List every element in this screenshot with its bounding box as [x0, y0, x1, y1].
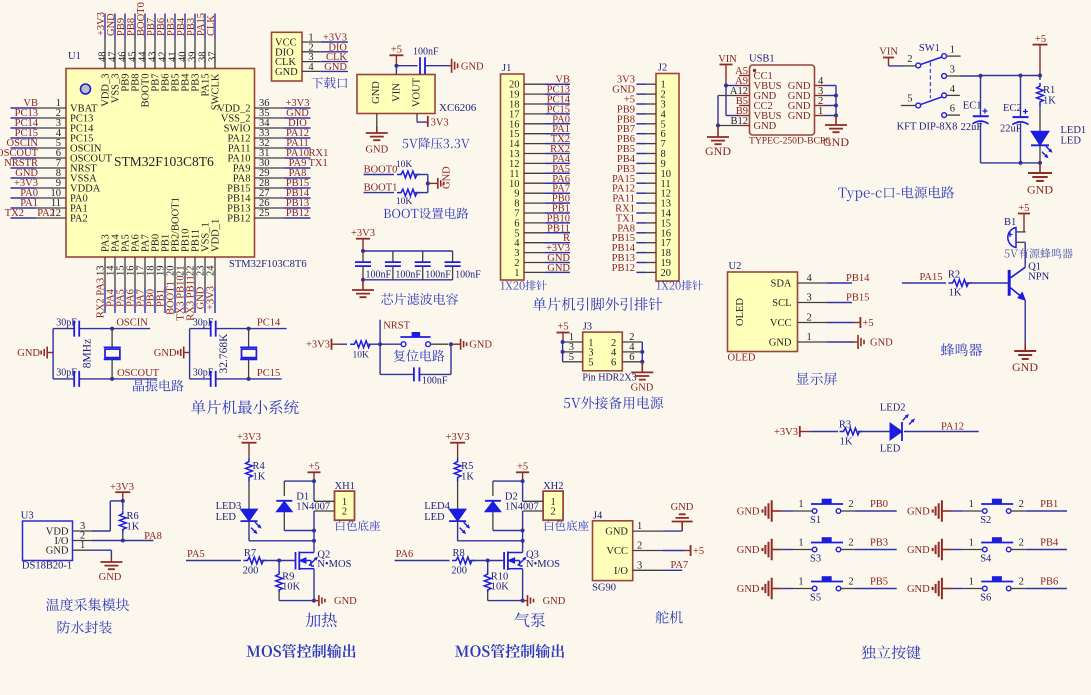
U1 right net wires and labels: [285, 98, 329, 219]
switch S4: [952, 537, 1024, 564]
svg-text:2: 2: [1019, 499, 1024, 510]
junction gate: [486, 559, 490, 563]
wire flyback bottom: [284, 530, 314, 532]
svg-text:30pF: 30pF: [193, 368, 214, 379]
USB1 right pins 4-1: [815, 76, 837, 117]
svg-text:S6: S6: [980, 593, 991, 604]
svg-text:+5: +5: [693, 546, 704, 557]
title servo: [656, 611, 683, 624]
svg-text:U1: U1: [68, 51, 81, 62]
svg-text:+3V3: +3V3: [306, 340, 330, 351]
svg-text:22uF: 22uF: [1000, 124, 1022, 135]
wire VIN node: [395, 66, 397, 75]
title reset circuit: [394, 350, 445, 362]
svg-text:3: 3: [637, 560, 642, 571]
svg-text:VIN: VIN: [718, 54, 737, 65]
ground sideways input cap: [449, 65, 451, 67]
svg-text:2: 2: [637, 541, 642, 552]
svg-text:3: 3: [807, 293, 812, 304]
svg-text:GND: GND: [547, 263, 570, 274]
svg-text:J4: J4: [593, 510, 603, 521]
svg-text:SWCLK: SWCLK: [211, 73, 222, 110]
resistor R6 1K: [122, 501, 124, 510]
svg-text:GND: GND: [365, 145, 388, 156]
svg-text:PA2: PA2: [70, 214, 88, 225]
U1 bottom pins 13-24: [96, 197, 222, 287]
ground usb left: [717, 126, 719, 138]
svg-text:30pF: 30pF: [193, 318, 214, 329]
svg-text:PB15: PB15: [846, 293, 869, 304]
svg-text:GND: GND: [275, 67, 298, 78]
junction VBUS: [724, 84, 728, 88]
capacitors 100nF x4: [355, 251, 461, 280]
svg-text:3V3: 3V3: [431, 118, 449, 129]
svg-text:GND: GND: [907, 584, 930, 595]
svg-text:Pin HDR2X3: Pin HDR2X3: [582, 373, 636, 384]
junctions J3 right: [640, 350, 644, 354]
svg-text:+3V3: +3V3: [774, 427, 798, 438]
svg-text:4: 4: [807, 273, 813, 284]
svg-text:R5: R5: [461, 461, 473, 472]
svg-text:N•MOS: N•MOS: [317, 559, 351, 570]
net label PB1 wire: [1011, 510, 1026, 512]
junctions crystal 8MHz: [110, 327, 114, 331]
svg-text:USB1: USB1: [749, 54, 775, 65]
ground oled: [828, 341, 855, 343]
svg-text:LED: LED: [424, 512, 445, 523]
title xiazaikou: [312, 77, 348, 88]
wire led to drain node: [248, 521, 250, 541]
svg-text:1: 1: [807, 332, 812, 343]
display U2 body: [728, 272, 798, 352]
svg-text:GND: GND: [671, 502, 694, 513]
svg-text:CLK: CLK: [206, 15, 217, 36]
wire flyback top: [493, 480, 523, 482]
svg-text:10K: 10K: [282, 582, 301, 593]
svg-text:+5: +5: [391, 45, 402, 56]
USB1 left pins: [730, 66, 782, 132]
wire source to gnd: [313, 569, 315, 601]
svg-text:PB6: PB6: [1040, 577, 1058, 588]
svg-text:100nF: 100nF: [455, 270, 481, 281]
resistor R7 200: [243, 557, 266, 564]
svg-text:NRST: NRST: [383, 321, 410, 332]
diode D1 1N4007: [276, 500, 292, 502]
svg-text:S3: S3: [810, 554, 821, 565]
svg-text:GND: GND: [737, 545, 760, 556]
connector J4 body: [593, 521, 633, 581]
svg-text:PC15: PC15: [257, 368, 280, 379]
svg-text:1: 1: [80, 540, 85, 551]
junction filter bottom: [361, 278, 365, 282]
resistor R1 1K: [1039, 76, 1041, 81]
svg-text:J1: J1: [502, 63, 511, 74]
ground J3: [641, 362, 643, 373]
svg-text:B1: B1: [1004, 217, 1016, 228]
J3 pins: [563, 332, 643, 369]
net label PB4 wire: [1011, 549, 1026, 551]
svg-text:PB4: PB4: [1040, 538, 1059, 549]
svg-text:GND: GND: [324, 62, 347, 73]
svg-text:VCC: VCC: [770, 318, 792, 329]
svg-text:4: 4: [308, 62, 314, 73]
regulator XC6206 body: [357, 75, 435, 114]
svg-text:TX2: TX2: [5, 208, 24, 219]
net label PC14: [249, 328, 287, 330]
junction usb gnd left: [716, 124, 720, 128]
U1 right pins 36-25: [217, 98, 284, 225]
svg-text:GND: GND: [870, 338, 893, 349]
svg-text:VIN: VIN: [879, 47, 898, 58]
svg-text:S5: S5: [810, 593, 821, 604]
svg-text:R8: R8: [452, 548, 464, 559]
switch S1: [781, 499, 853, 526]
svg-text:TYPEC-250D-BCP6: TYPEC-250D-BCP6: [749, 136, 830, 147]
svg-text:1: 1: [637, 521, 642, 532]
switch S2: [952, 499, 1024, 526]
wire source to gnd: [522, 569, 524, 601]
connector download port body: [272, 32, 303, 81]
svg-text:+3V3: +3V3: [446, 432, 470, 443]
resistor R9 10K: [278, 561, 280, 572]
junctions top bus: [979, 74, 983, 78]
svg-text:PA2: PA2: [37, 208, 55, 219]
svg-text:20: 20: [661, 268, 672, 279]
net label NRST: [379, 320, 381, 345]
net label PB0 wire: [841, 510, 856, 512]
ground reset: [451, 343, 461, 345]
svg-text:VIN: VIN: [391, 83, 402, 102]
svg-text:1K: 1K: [253, 472, 266, 483]
capacitor 30pF top 32.768K: [211, 321, 216, 337]
crystal 32.768K: [248, 329, 250, 348]
junction I/O: [121, 539, 125, 543]
svg-text:100nF: 100nF: [425, 270, 451, 281]
wire flyback bottom: [493, 530, 523, 532]
svg-text:+3V3: +3V3: [351, 228, 375, 239]
svg-text:I/O: I/O: [614, 566, 628, 577]
svg-text:+3V3: +3V3: [237, 432, 261, 443]
wire buzzer to collector: [1024, 242, 1026, 267]
junction drain node: [312, 539, 316, 543]
svg-text:+5: +5: [863, 318, 874, 329]
junction gate: [277, 559, 281, 563]
junction filter top: [361, 249, 365, 253]
svg-text:2: 2: [848, 499, 853, 510]
wire +5 to pin1: [313, 481, 315, 501]
svg-text:J3: J3: [583, 322, 592, 333]
connector USB1 body: [750, 65, 815, 135]
wire J3 left: [562, 342, 564, 362]
comment white socket: [336, 520, 380, 531]
svg-text:100nF: 100nF: [413, 47, 439, 58]
net label PB14: [828, 282, 853, 284]
capacitor 100nF reset: [379, 344, 381, 374]
svg-text:1K: 1K: [840, 437, 853, 448]
wire usb gnd right: [835, 86, 837, 116]
U1 left net wires and labels: [0, 98, 55, 219]
svg-text:PB14: PB14: [846, 273, 870, 284]
junction BOOT: [426, 181, 430, 185]
svg-text:R3: R3: [839, 420, 851, 431]
capacitor 30pF top 8MHz: [74, 321, 79, 337]
J2 net wires and labels: [612, 75, 646, 274]
J4 pins: [605, 521, 662, 577]
svg-text:TX1: TX1: [309, 158, 328, 169]
comment 1X20 header J2: [657, 280, 703, 290]
svg-text:GND: GND: [1027, 183, 1053, 197]
title crystal circuit: [133, 380, 183, 392]
svg-text:LED2: LED2: [880, 403, 906, 414]
svg-text:LED: LED: [1061, 136, 1082, 147]
svg-text:OSCOUT: OSCOUT: [117, 368, 160, 379]
U1 left pins 1-12: [36, 98, 113, 225]
title Type-c power circuit: [838, 186, 954, 201]
ground mos Q3: [523, 600, 528, 602]
title temperature module: [46, 598, 129, 611]
svg-text:37: 37: [208, 52, 219, 63]
ground power circuit: [1039, 163, 1041, 173]
svg-text:6: 6: [629, 352, 634, 363]
svg-text:1: 1: [969, 538, 974, 549]
svg-text:GND: GND: [631, 383, 654, 394]
svg-text:2: 2: [848, 577, 853, 588]
svg-text:2: 2: [550, 507, 555, 518]
svg-text:R6: R6: [127, 511, 139, 522]
capacitor 30pF bottom 8MHz: [74, 371, 79, 387]
svg-text:GND: GND: [737, 584, 760, 595]
svg-text:LED3: LED3: [216, 501, 242, 512]
wire BOOT join: [427, 175, 429, 193]
led LED4: [449, 509, 466, 521]
ground BOOT sideways: [428, 182, 438, 184]
svg-text:30pF: 30pF: [56, 318, 77, 329]
svg-text:200: 200: [243, 566, 259, 577]
svg-text:U3: U3: [21, 511, 34, 522]
svg-text:LED1: LED1: [1061, 125, 1087, 136]
wire drain net: [522, 511, 524, 552]
comment white socket: [545, 520, 589, 531]
capacitor 100nF input: [420, 57, 425, 74]
svg-text:1: 1: [969, 577, 974, 588]
wire flyback top: [284, 480, 314, 482]
svg-text:PA15: PA15: [920, 272, 943, 283]
junction VIN: [394, 64, 398, 68]
wire emitter to gnd: [1024, 300, 1026, 342]
svg-text:1K: 1K: [1043, 96, 1056, 107]
download port pins 1-4: [302, 33, 348, 73]
junction source gnd: [312, 599, 316, 603]
wire +5 to pin1: [522, 481, 524, 501]
svg-text:S2: S2: [980, 515, 991, 526]
IC U1 STM32F103C8T6 body: [66, 69, 255, 258]
svg-text:N•MOS: N•MOS: [526, 559, 560, 570]
connector J2 body: [656, 74, 679, 282]
svg-text:2: 2: [342, 507, 347, 518]
title independent buttons: [861, 645, 920, 659]
svg-text:8MHz: 8MHz: [82, 339, 94, 368]
svg-text:5: 5: [907, 94, 912, 105]
ground sensor: [92, 549, 111, 551]
svg-text:VOUT: VOUT: [411, 77, 422, 107]
title chip filter capacitors: [381, 293, 458, 305]
net label PB5 wire: [841, 588, 856, 590]
net label PB3 wire: [841, 549, 856, 551]
wire filter bottom bus: [363, 279, 453, 281]
svg-text:1: 1: [818, 106, 823, 117]
svg-text:30pF: 30pF: [56, 368, 77, 379]
svg-text:GND: GND: [17, 348, 40, 359]
switch reset button: [380, 343, 401, 345]
svg-text:VDD_1: VDD_1: [211, 219, 222, 252]
wire led to drain node: [457, 521, 459, 541]
svg-text:200: 200: [451, 566, 467, 577]
led LED2: [890, 423, 902, 440]
svg-text:5: 5: [569, 352, 574, 363]
wire sw1 pin3 to rail: [960, 75, 981, 77]
XH2 pins: [523, 500, 544, 502]
resistor R4 1K: [248, 453, 250, 459]
svg-text:STM32F103C8T6: STM32F103C8T6: [229, 259, 307, 270]
svg-text:GND: GND: [823, 135, 849, 149]
ground mos Q2: [314, 600, 319, 602]
title display: [796, 373, 837, 386]
net label OSCOUT: [112, 378, 157, 380]
svg-text:1: 1: [798, 499, 803, 510]
junction drain node: [521, 539, 525, 543]
svg-text:OLED: OLED: [735, 298, 746, 326]
svg-text:PA8: PA8: [144, 531, 162, 542]
title 5V external backup power: [564, 396, 663, 409]
svg-text:GND: GND: [754, 121, 777, 132]
svg-text:GND: GND: [907, 507, 930, 518]
svg-text:PA6: PA6: [396, 549, 414, 560]
U2 pins: [769, 273, 828, 349]
resistor R8 200: [452, 557, 475, 564]
title 5V step down 3.3V: [403, 137, 470, 149]
svg-text:PB3: PB3: [870, 538, 888, 549]
svg-text:GND: GND: [1012, 360, 1038, 374]
svg-text:PB0: PB0: [870, 499, 888, 510]
resistor 10K BOOT0: [364, 174, 394, 176]
title MOS control output 2: [455, 644, 564, 658]
svg-text:10K: 10K: [491, 582, 510, 593]
wire VBUS net: [726, 85, 739, 87]
svg-text:10K: 10K: [396, 160, 413, 170]
svg-text:XC6206: XC6206: [439, 102, 477, 114]
title air pump: [515, 613, 546, 628]
svg-text:5: 5: [588, 358, 593, 369]
svg-text:R4: R4: [253, 461, 266, 472]
U1 bottom net wires and labels: [96, 275, 217, 320]
svg-text:6: 6: [611, 358, 616, 369]
svg-text:EC2: EC2: [1003, 103, 1022, 114]
svg-text:R7: R7: [244, 548, 256, 559]
diode D2 1N4007: [485, 500, 501, 502]
resistor R10 10K: [487, 561, 489, 572]
junctions J3 left: [561, 340, 565, 344]
junctions bottom bus: [1019, 161, 1023, 165]
net 3V3 output: [416, 114, 418, 123]
svg-text:GND: GND: [543, 596, 566, 607]
net label PA5 wire: [186, 560, 241, 562]
ground servo: [663, 530, 683, 532]
connector XH2 body: [543, 491, 563, 520]
junctions usb right: [834, 94, 838, 98]
svg-text:25: 25: [259, 208, 270, 219]
svg-text:2: 2: [807, 313, 812, 324]
svg-text:+5: +5: [1018, 203, 1029, 214]
wire VDD to +3V3: [92, 530, 110, 532]
net label PB15: [828, 302, 853, 304]
net label OSCIN: [112, 328, 150, 330]
led LED1: [1031, 131, 1049, 145]
svg-text:SCL: SCL: [772, 298, 791, 309]
wire I/O PA8: [92, 540, 154, 542]
labels 100nF: [366, 270, 482, 281]
svg-text:PA12: PA12: [941, 422, 964, 433]
sensor U3 body: [23, 521, 73, 561]
svg-text:24: 24: [206, 265, 217, 276]
connector J1 body: [501, 74, 525, 280]
resistor R2 1K: [902, 282, 946, 284]
title buzzer: [941, 343, 982, 356]
svg-text:100nF: 100nF: [366, 270, 392, 281]
svg-text:S1: S1: [810, 515, 821, 526]
junction flyback: [521, 529, 525, 533]
junction +5 node: [521, 479, 525, 483]
switch S3: [781, 537, 853, 564]
ground filter caps: [362, 280, 364, 290]
U1 top net wires and labels: [96, 2, 217, 38]
wire drain net: [313, 511, 315, 552]
power +5 servo: [663, 550, 684, 552]
junction reset right: [449, 342, 453, 346]
wire filter top bus: [363, 250, 453, 252]
net label PC15: [249, 378, 282, 380]
svg-text:OLED: OLED: [728, 353, 756, 364]
svg-text:1K: 1K: [461, 472, 474, 483]
wire bottom bus power: [981, 162, 1041, 164]
led LED3: [241, 509, 258, 521]
svg-text:S4: S4: [980, 554, 992, 565]
svg-text:2: 2: [848, 538, 853, 549]
svg-text:+3V3: +3V3: [206, 286, 217, 310]
power +5 oled: [828, 322, 855, 324]
svg-text:1: 1: [798, 538, 803, 549]
svg-text:GND: GND: [737, 507, 760, 518]
svg-text:EC1: EC1: [963, 101, 982, 112]
title waterproof package: [58, 621, 112, 634]
resistor R3 1K: [810, 431, 838, 433]
svg-text:GND: GND: [788, 111, 811, 122]
svg-text:1K: 1K: [127, 522, 140, 533]
svg-text:GND: GND: [769, 338, 792, 349]
net label PA7: [663, 569, 683, 571]
svg-text:22uF: 22uF: [961, 122, 983, 133]
title mcu minimum system: [191, 400, 299, 414]
title BOOT setting circuit: [384, 208, 469, 220]
svg-text:LED: LED: [880, 444, 901, 455]
USB1 right GND pin names: [788, 81, 811, 122]
junction NRST: [378, 342, 382, 346]
svg-text:+5: +5: [308, 462, 319, 473]
connector J3 body: [583, 332, 623, 371]
J1 pins 20-1: [509, 80, 545, 279]
comment 1X20 header J1: [501, 280, 547, 290]
svg-text:GND: GND: [334, 596, 357, 607]
junction sensor top: [121, 499, 125, 503]
